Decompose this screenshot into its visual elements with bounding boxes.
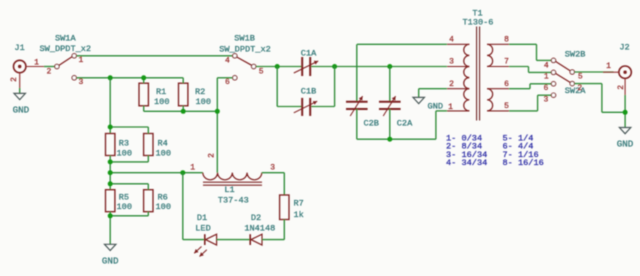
svg-text:R7: R7 <box>294 199 304 209</box>
svg-text:C2B: C2B <box>363 118 378 128</box>
svg-text:2: 2 <box>449 80 454 89</box>
svg-text:SW_DPDT_x2: SW_DPDT_x2 <box>219 44 271 54</box>
svg-text:C1B: C1B <box>301 87 316 97</box>
svg-text:100: 100 <box>117 202 132 212</box>
svg-text:SW1A: SW1A <box>55 33 76 43</box>
svg-text:R2: R2 <box>195 87 205 97</box>
svg-text:L1: L1 <box>224 185 234 195</box>
svg-text:1: 1 <box>34 58 39 67</box>
svg-text:J2: J2 <box>619 42 629 52</box>
svg-text:J1: J1 <box>14 43 24 53</box>
svg-text:6: 6 <box>543 84 548 93</box>
svg-text:GND: GND <box>13 105 30 116</box>
svg-text:LED: LED <box>195 224 210 234</box>
svg-text:R5: R5 <box>119 192 129 202</box>
svg-text:R4: R4 <box>158 139 168 149</box>
svg-text:R6: R6 <box>158 192 168 202</box>
svg-text:100: 100 <box>196 97 211 107</box>
svg-text:8: 8 <box>504 36 509 45</box>
svg-text:1: 1 <box>606 62 611 71</box>
svg-text:SW1B: SW1B <box>234 34 255 44</box>
svg-text:8- 16/16: 8- 16/16 <box>503 158 544 168</box>
svg-text:100: 100 <box>154 97 169 107</box>
svg-text:4- 34/34: 4- 34/34 <box>446 158 487 168</box>
svg-text:100: 100 <box>117 148 132 158</box>
svg-text:1N4148: 1N4148 <box>244 224 275 234</box>
svg-text:R3: R3 <box>119 139 129 149</box>
svg-text:3: 3 <box>78 78 83 87</box>
svg-text:2: 2 <box>10 77 19 82</box>
svg-text:SW2A: SW2A <box>565 86 586 96</box>
svg-text:C2A: C2A <box>397 118 413 128</box>
svg-text:3: 3 <box>270 163 275 172</box>
svg-text:4: 4 <box>225 56 230 65</box>
svg-text:1: 1 <box>448 103 453 112</box>
svg-text:GND: GND <box>617 139 634 150</box>
svg-text:C1A: C1A <box>301 49 317 59</box>
svg-text:2: 2 <box>577 84 582 93</box>
svg-text:100: 100 <box>156 148 171 158</box>
svg-text:1: 1 <box>544 73 549 82</box>
svg-text:GND: GND <box>102 255 119 266</box>
svg-text:T130-6: T130-6 <box>463 18 494 28</box>
svg-text:4: 4 <box>544 62 549 71</box>
svg-text:6: 6 <box>504 80 509 89</box>
svg-text:2: 2 <box>207 153 216 158</box>
svg-text:1k: 1k <box>294 210 304 220</box>
svg-text:5: 5 <box>259 67 264 76</box>
svg-text:2: 2 <box>617 85 626 90</box>
svg-text:D1: D1 <box>197 213 207 223</box>
svg-text:7: 7 <box>504 58 509 67</box>
svg-text:D2: D2 <box>251 213 261 223</box>
svg-text:1: 1 <box>78 56 83 65</box>
svg-text:5: 5 <box>504 102 509 111</box>
svg-text:5: 5 <box>578 73 583 82</box>
svg-text:4: 4 <box>449 36 454 45</box>
svg-text:SW2B: SW2B <box>565 50 586 60</box>
svg-text:2: 2 <box>46 67 51 76</box>
svg-text:1: 1 <box>190 163 195 172</box>
svg-text:GND: GND <box>428 101 443 111</box>
svg-text:3: 3 <box>449 58 454 67</box>
svg-text:R1: R1 <box>156 87 166 97</box>
svg-text:3: 3 <box>543 96 548 105</box>
svg-text:T37-43: T37-43 <box>218 195 249 205</box>
svg-text:6: 6 <box>225 78 230 87</box>
svg-text:SW_DPDT_x2: SW_DPDT_x2 <box>40 44 92 54</box>
svg-text:100: 100 <box>156 202 171 212</box>
